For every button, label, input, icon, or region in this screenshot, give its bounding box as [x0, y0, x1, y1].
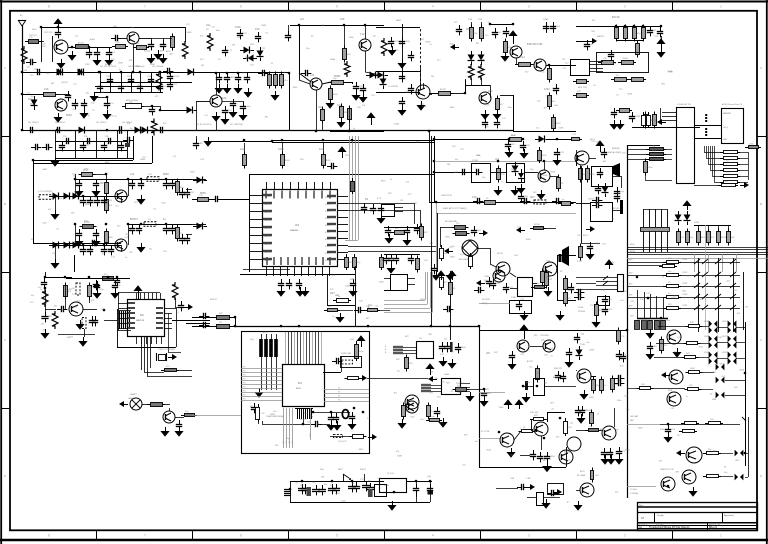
svg-text:100n: 100n — [545, 277, 549, 279]
svg-text:T2B 8050: T2B 8050 — [540, 335, 550, 337]
svg-text:10u: 10u — [150, 82, 153, 84]
svg-text:IC2: IC2 — [140, 314, 144, 317]
svg-text:T12: T12 — [561, 152, 564, 154]
svg-text:560R: 560R — [526, 239, 531, 241]
svg-text:17B2: 17B2 — [85, 64, 89, 66]
svg-text:10u: 10u — [619, 89, 622, 91]
svg-text:17B2: 17B2 — [147, 76, 151, 78]
svg-text:100n: 100n — [457, 386, 461, 388]
svg-text:2: 2 — [624, 534, 626, 538]
svg-text:560R: 560R — [450, 256, 455, 258]
svg-text:U6AX: U6AX — [444, 373, 450, 376]
svg-text:100n: 100n — [341, 501, 345, 503]
svg-text:C12: C12 — [520, 55, 525, 59]
svg-text:10u: 10u — [300, 485, 303, 487]
svg-text:100n: 100n — [508, 107, 512, 109]
svg-text:BATT: BATT — [338, 468, 344, 471]
svg-text:10u: 10u — [529, 367, 532, 369]
svg-text:B: B — [4, 202, 6, 206]
svg-text:10u: 10u — [319, 147, 324, 151]
svg-text:L4T CAPTR(L): L4T CAPTR(L) — [230, 123, 244, 126]
svg-text:U2A4 BT?-LOW: U2A4 BT?-LOW — [660, 468, 674, 471]
svg-text:PCA-LD(B2): PCA-LD(B2) — [610, 151, 621, 154]
svg-text:100n: 100n — [652, 155, 656, 157]
svg-text:C12: C12 — [672, 429, 675, 431]
svg-text:VCC1: VCC1 — [325, 204, 330, 206]
svg-text:100n: 100n — [660, 429, 666, 431]
svg-text:22p: 22p — [206, 23, 211, 27]
svg-text:VCC1: VCC1 — [325, 260, 330, 262]
svg-text:U1B1: U1B1 — [543, 19, 549, 21]
svg-text:10u: 10u — [462, 464, 465, 466]
svg-text:BP2: BP2 — [629, 273, 632, 275]
svg-text:LAMP: LAMP — [128, 397, 134, 400]
svg-text:560R: 560R — [119, 141, 124, 143]
svg-text:L21: L21 — [350, 277, 355, 281]
svg-text:U3OR: U3OR — [722, 321, 727, 323]
svg-text:1n: 1n — [591, 44, 593, 46]
svg-text:1: 1 — [720, 534, 722, 538]
svg-text:BC547: BC547 — [174, 76, 180, 78]
svg-text:R52 561: R52 561 — [29, 35, 37, 37]
svg-text:MCU: MCU — [296, 388, 301, 390]
svg-text:BC547: BC547 — [553, 377, 560, 379]
svg-text:VCC1: VCC1 — [325, 211, 330, 213]
svg-text:472: 472 — [510, 287, 513, 289]
svg-text:Thunderbird 50mgs PCT-02 (Rev: Thunderbird 50mgs PCT-02 (Rev.0) — [649, 525, 689, 529]
svg-text:1n: 1n — [551, 355, 553, 357]
svg-text:BC547: BC547 — [527, 361, 534, 363]
svg-text:BC547: BC547 — [497, 253, 504, 255]
svg-text:10K: 10K — [44, 87, 49, 91]
svg-text:B: B — [760, 202, 762, 206]
svg-text:6: 6 — [240, 534, 242, 538]
svg-text:4R7: 4R7 — [100, 181, 105, 185]
svg-text:T1C2: T1C2 — [577, 261, 583, 263]
svg-text:10K: 10K — [472, 195, 477, 199]
svg-text:8050: 8050 — [66, 113, 72, 117]
svg-text:472: 472 — [330, 485, 333, 487]
svg-text:MB8719: MB8719 — [136, 320, 145, 322]
svg-text:T10A: T10A — [578, 306, 583, 309]
svg-text:17B2: 17B2 — [106, 76, 110, 78]
svg-text:5: 5 — [336, 5, 338, 9]
svg-text:8050: 8050 — [200, 191, 206, 195]
svg-text:2K2: 2K2 — [512, 144, 515, 146]
svg-text:8050: 8050 — [150, 64, 156, 66]
svg-text:560R: 560R — [42, 169, 47, 171]
svg-text:560R: 560R — [334, 74, 340, 78]
svg-text:C12: C12 — [497, 283, 500, 285]
svg-text:L21: L21 — [130, 172, 135, 176]
svg-text:2K2: 2K2 — [609, 299, 612, 301]
svg-text:560R: 560R — [720, 363, 725, 365]
svg-text:D1: D1 — [113, 52, 115, 54]
svg-text:R47: R47 — [191, 192, 194, 194]
svg-text:IC1: IC1 — [295, 223, 300, 227]
svg-text:1n: 1n — [119, 285, 121, 287]
svg-text:22p: 22p — [240, 147, 245, 151]
svg-text:100n: 100n — [383, 262, 387, 264]
svg-text:L2C00: L2C00 — [310, 433, 312, 438]
svg-text:560R: 560R — [739, 370, 744, 372]
svg-text:560R: 560R — [511, 169, 516, 171]
svg-text:B-EXT: B-EXT — [360, 469, 367, 471]
svg-text:BC547: BC547 — [245, 57, 252, 59]
svg-text:560R: 560R — [589, 350, 594, 352]
svg-text:7: 7 — [144, 534, 146, 538]
svg-text:47p: 47p — [84, 167, 89, 171]
svg-text:A: A — [760, 66, 762, 70]
svg-text:TX-LED: TX-LED — [630, 489, 637, 491]
svg-text:Approved: Approved — [724, 514, 734, 517]
svg-text:100n: 100n — [42, 223, 46, 225]
svg-text:(+B): (+B) — [427, 476, 431, 478]
svg-text:L2 R-OUT: L2 R-OUT — [338, 441, 347, 443]
svg-text:560R: 560R — [330, 59, 336, 61]
svg-text:A: A — [4, 66, 6, 70]
svg-text:100n: 100n — [699, 346, 703, 348]
svg-text:10u: 10u — [485, 35, 488, 37]
svg-text:4R7: 4R7 — [330, 291, 335, 295]
svg-text:BC547: BC547 — [411, 203, 418, 205]
svg-text:T2C: T2C — [590, 305, 594, 307]
svg-text:VCC1: VCC1 — [325, 225, 330, 227]
svg-text:VCC1: VCC1 — [325, 253, 330, 255]
svg-text:1n: 1n — [119, 69, 121, 71]
svg-text:B2C5: B2C5 — [580, 471, 585, 473]
svg-text:7805: 7805 — [384, 485, 390, 487]
svg-text:1n: 1n — [332, 316, 334, 318]
svg-text:100n: 100n — [544, 87, 550, 91]
svg-text:LAMP?: LAMP? — [130, 393, 138, 396]
svg-text:8: 8 — [48, 534, 50, 538]
svg-text:8050: 8050 — [551, 456, 555, 458]
svg-text:100n: 100n — [410, 417, 414, 419]
svg-text:100n: 100n — [554, 105, 558, 107]
svg-text:560R: 560R — [140, 159, 146, 161]
svg-text:L21: L21 — [229, 50, 232, 52]
svg-text:3: 3 — [528, 5, 530, 9]
svg-text:560R: 560R — [397, 456, 402, 458]
svg-text:B1B2(B): B1B2(B) — [612, 148, 620, 150]
svg-text:R1D 10R: R1D 10R — [530, 412, 539, 414]
svg-text:103: 103 — [340, 17, 345, 21]
svg-text:8: 8 — [48, 5, 50, 9]
svg-text:1n: 1n — [390, 179, 392, 181]
svg-text:100n: 100n — [648, 167, 652, 169]
svg-text:8050: 8050 — [163, 172, 169, 176]
svg-text:L41 1R5/L3: L41 1R5/L3 — [96, 122, 107, 124]
svg-text:560R: 560R — [261, 25, 266, 27]
svg-text:X-TAL: X-TAL — [472, 159, 479, 162]
svg-text:BC547: BC547 — [78, 43, 85, 45]
svg-text:BP2: BP2 — [629, 306, 632, 308]
svg-text:1n: 1n — [367, 418, 369, 420]
svg-text:1n: 1n — [662, 277, 664, 279]
svg-text:100n: 100n — [422, 106, 426, 108]
svg-text:L-T0 CFW455: L-T0 CFW455 — [38, 191, 53, 193]
svg-text:U3OR: U3OR — [722, 352, 727, 354]
svg-text:BA1TE: BA1TE — [612, 16, 620, 19]
svg-text:560R: 560R — [559, 128, 564, 130]
svg-text:1-2R/S: 1-2R/S — [682, 283, 688, 285]
svg-text:560R: 560R — [499, 407, 504, 409]
svg-text:VCC1: VCC1 — [325, 246, 330, 248]
svg-text:1n: 1n — [431, 411, 433, 413]
svg-text:U3GN: U3GN — [704, 352, 709, 354]
svg-text:HANKNET: HANKNET — [723, 112, 731, 115]
svg-text:10u: 10u — [131, 27, 134, 29]
svg-text:BC547: BC547 — [534, 224, 541, 226]
svg-text:1n: 1n — [685, 396, 687, 398]
svg-text:C12: C12 — [125, 86, 128, 88]
svg-text:10u: 10u — [84, 219, 89, 223]
svg-text:1n: 1n — [499, 32, 501, 34]
svg-text:L41 (P1.5675/L3): L41 (P1.5675/L3) — [196, 124, 212, 126]
svg-text:100n: 100n — [480, 59, 486, 61]
svg-text:10u: 10u — [724, 181, 727, 183]
svg-text:BC547: BC547 — [586, 410, 592, 412]
svg-text:AS NS Telecard Disp 2 B: AS NS Telecard Disp 2 B — [722, 103, 743, 106]
svg-text:560R: 560R — [636, 116, 641, 118]
svg-text:10u: 10u — [397, 371, 400, 373]
svg-text:BC547: BC547 — [210, 299, 217, 301]
svg-text:P-LED(A): P-LED(A) — [630, 492, 638, 495]
svg-text:L2 470R21B: L2 470R21B — [388, 86, 399, 88]
svg-text:100n: 100n — [359, 351, 363, 353]
svg-text:4: 4 — [432, 534, 434, 538]
svg-text:D1: D1 — [466, 27, 470, 31]
svg-text:U3OR: U3OR — [722, 336, 727, 338]
svg-text:2K2: 2K2 — [557, 26, 560, 28]
svg-text:560R: 560R — [551, 171, 556, 173]
svg-text:560R: 560R — [425, 41, 430, 43]
svg-text:1n: 1n — [668, 293, 670, 295]
svg-text:BP2: BP2 — [629, 295, 632, 297]
svg-text:10u: 10u — [586, 342, 589, 344]
svg-text:T12: T12 — [360, 32, 365, 36]
svg-text:100n: 100n — [185, 194, 189, 196]
svg-text:V1Y P1B: V1Y P1B — [481, 431, 490, 433]
svg-text:560R: 560R — [627, 94, 632, 96]
svg-text:17B2: 17B2 — [127, 76, 131, 78]
svg-text:Sheet 1 of 1: Sheet 1 of 1 — [709, 523, 721, 526]
svg-text:BP2: BP2 — [629, 284, 632, 286]
svg-text:10u: 10u — [537, 100, 540, 102]
svg-text:10u: 10u — [435, 378, 438, 380]
svg-text:X2A1 L2A1: X2A1 L2A1 — [341, 352, 352, 355]
svg-text:D1: D1 — [164, 86, 166, 88]
svg-text:1n: 1n — [430, 44, 432, 46]
svg-text:IC3: IC3 — [298, 382, 302, 385]
svg-text:47p: 47p — [621, 191, 624, 193]
svg-text:BC547: BC547 — [440, 89, 447, 91]
svg-text:10u: 10u — [74, 307, 77, 309]
svg-text:100n: 100n — [476, 155, 480, 157]
svg-text:1n: 1n — [597, 413, 599, 415]
svg-text:100n: 100n — [161, 202, 165, 204]
svg-text:LED BAT: LED BAT — [630, 415, 639, 418]
svg-text:IC4: IC4 — [111, 103, 114, 105]
svg-text:560R: 560R — [543, 175, 548, 177]
svg-text:IC4: IC4 — [229, 110, 232, 112]
svg-text:1-2R/S: 1-2R/S — [682, 294, 688, 296]
svg-text:BP5 17R: BP5 17R — [578, 87, 587, 89]
svg-text:10u: 10u — [284, 80, 287, 82]
svg-text:C2B7: C2B7 — [534, 373, 540, 375]
svg-text:T10B: T10B — [580, 344, 585, 346]
svg-text:6: 6 — [240, 5, 242, 9]
svg-text:MCF 455kHz: MCF 455kHz — [126, 100, 138, 102]
svg-text:4R7: 4R7 — [231, 77, 234, 79]
svg-text:1n: 1n — [562, 199, 564, 201]
svg-text:A?: A? — [641, 516, 645, 520]
svg-text:BRev.0): BRev.0) — [709, 527, 717, 529]
svg-text:B2-PWR: B2-PWR — [482, 299, 490, 301]
svg-text:560R: 560R — [108, 200, 113, 202]
svg-text:10K: 10K — [255, 27, 260, 31]
svg-text:T12: T12 — [360, 86, 363, 88]
svg-text:8050: 8050 — [462, 347, 466, 349]
svg-text:100n: 100n — [235, 25, 241, 29]
svg-text:5: 5 — [336, 534, 338, 538]
svg-text:8050: 8050 — [90, 39, 96, 41]
svg-text:L41 (P1.5675/L3): L41 (P1.5675/L3) — [100, 66, 116, 68]
svg-text:100n: 100n — [278, 147, 284, 151]
svg-text:KIA6445: KIA6445 — [290, 229, 299, 232]
svg-text:BC547: BC547 — [589, 198, 596, 200]
svg-text:10u: 10u — [273, 411, 276, 413]
svg-text:BP3 (A) BPA: BP3 (A) BPA — [445, 220, 457, 223]
svg-text:PDM-IN: PDM-IN — [578, 311, 586, 313]
svg-text:1-2R/S: 1-2R/S — [682, 305, 688, 307]
svg-text:560R: 560R — [690, 368, 695, 370]
svg-text:4R7: 4R7 — [654, 346, 657, 348]
svg-text:560R: 560R — [187, 32, 192, 34]
svg-text:U3B7: U3B7 — [712, 372, 716, 374]
svg-text:BC547: BC547 — [613, 208, 620, 210]
svg-text:10u: 10u — [368, 480, 371, 482]
svg-text:100n: 100n — [169, 54, 173, 56]
svg-text:R2B 47R: R2B 47R — [554, 368, 563, 370]
svg-text:10u: 10u — [674, 351, 677, 353]
svg-text:Design: Design — [657, 515, 665, 517]
svg-text:B2B1: B2B1 — [668, 390, 672, 392]
svg-text:R47: R47 — [527, 145, 530, 147]
svg-text:100n: 100n — [247, 106, 251, 108]
svg-text:BP2: BP2 — [629, 260, 632, 262]
svg-text:D1: D1 — [365, 197, 369, 201]
svg-text:100n: 100n — [682, 291, 686, 293]
svg-text:B1B1 BEA-1: B1B1 BEA-1 — [459, 258, 470, 261]
svg-text:LED?: LED? — [735, 460, 740, 462]
svg-text:V1 4.5V: V1 4.5V — [387, 473, 395, 475]
svg-text:100n: 100n — [617, 400, 621, 402]
svg-text:L41 1R5/L3: L41 1R5/L3 — [28, 122, 39, 124]
svg-text:560R: 560R — [394, 124, 399, 126]
svg-text:U.1 AS/CA7 T50: U.1 AS/CA7 T50 — [677, 103, 691, 106]
svg-text:VCC1: VCC1 — [325, 197, 330, 199]
svg-text:7: 7 — [144, 5, 146, 9]
svg-text:3: 3 — [528, 534, 530, 538]
svg-text:10K: 10K — [640, 299, 644, 301]
svg-text:A1B1 APT3 PCT-TAB(1): A1B1 APT3 PCT-TAB(1) — [443, 207, 467, 210]
svg-text:10u: 10u — [311, 35, 314, 37]
svg-text:B?: B? — [567, 502, 569, 504]
svg-text:L41 1R5/L3: L41 1R5/L3 — [55, 122, 66, 124]
svg-text:4: 4 — [432, 5, 434, 9]
svg-text:10u: 10u — [72, 174, 75, 176]
svg-text:100n: 100n — [749, 143, 753, 145]
svg-text:1n: 1n — [125, 257, 127, 259]
svg-text:10u: 10u — [475, 441, 478, 443]
svg-text:C2A4: C2A4 — [484, 275, 490, 278]
svg-text:1: 1 — [720, 5, 722, 9]
svg-text:100n: 100n — [345, 286, 349, 288]
svg-text:100n: 100n — [430, 416, 434, 418]
svg-text:560R: 560R — [667, 71, 672, 73]
svg-text:BC547: BC547 — [144, 51, 151, 53]
svg-text:560R: 560R — [457, 392, 462, 394]
svg-text:T1C1 BC17: T1C1 BC17 — [577, 235, 589, 237]
svg-text:560R: 560R — [623, 58, 628, 60]
svg-text:10K: 10K — [222, 96, 227, 100]
svg-text:U3GN: U3GN — [704, 336, 709, 338]
svg-text:1n: 1n — [130, 128, 132, 130]
svg-text:100n: 100n — [215, 30, 219, 32]
svg-text:100n: 100n — [449, 44, 453, 46]
svg-text:BT-LHBA: BT-LHBA — [577, 474, 586, 477]
svg-text:2K2: 2K2 — [478, 230, 481, 232]
svg-text:4R7: 4R7 — [530, 195, 535, 199]
svg-text:100n: 100n — [526, 382, 530, 384]
svg-text:1n: 1n — [501, 181, 503, 183]
svg-text:1-2R/S: 1-2R/S — [682, 272, 688, 274]
svg-text:4.7V: 4.7V — [377, 198, 382, 200]
svg-text:22p: 22p — [318, 105, 323, 109]
svg-text:100n: 100n — [32, 29, 36, 31]
svg-text:U3GN: U3GN — [704, 321, 709, 323]
svg-text:L01 (-): L01 (-) — [723, 127, 728, 129]
svg-text:100n: 100n — [545, 96, 549, 98]
svg-text:VCC1: VCC1 — [325, 218, 330, 220]
svg-text:BA1T: BA1T — [396, 19, 402, 22]
svg-text:U3B8: U3B8 — [712, 399, 716, 401]
svg-text:X1: X1 — [654, 30, 656, 32]
svg-text:L4C 455kHz: L4C 455kHz — [152, 66, 163, 68]
svg-text:B1B2 MTZ-NM: B1B2 MTZ-NM — [527, 44, 542, 46]
svg-text:10u: 10u — [72, 294, 75, 296]
svg-text:10u: 10u — [668, 271, 671, 273]
svg-text:10u: 10u — [620, 300, 623, 302]
svg-text:X1: X1 — [352, 483, 354, 485]
svg-text:50pF: 50pF — [484, 280, 489, 282]
svg-text:1-2R/S: 1-2R/S — [682, 259, 688, 261]
svg-text:1n: 1n — [604, 385, 606, 387]
svg-text:8050: 8050 — [406, 41, 410, 43]
svg-text:472: 472 — [244, 33, 247, 35]
svg-text:10u: 10u — [626, 409, 629, 411]
svg-text:560R: 560R — [118, 63, 123, 65]
svg-text:4R7: 4R7 — [200, 143, 203, 145]
svg-text:560R: 560R — [651, 120, 656, 122]
svg-text:560R: 560R — [270, 414, 275, 416]
svg-text:BC547: BC547 — [564, 452, 571, 454]
svg-text:1n: 1n — [349, 290, 351, 292]
svg-text:L21: L21 — [300, 18, 305, 21]
svg-text:VCC1: VCC1 — [325, 232, 330, 234]
